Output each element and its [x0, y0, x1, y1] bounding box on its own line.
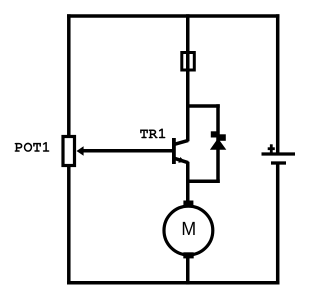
wire emitter lead to motor	[186, 162, 190, 204]
motor M1 bottom terminal	[183, 252, 193, 258]
motor M1 top terminal	[183, 201, 193, 207]
wire right rail lower	[276, 163, 280, 285]
wire left rail upper	[67, 14, 71, 137]
battery BT1 negative short plate	[271, 161, 286, 164]
wire diode loop top	[186, 104, 220, 108]
potentiometer POT1 wiper arrowhead	[77, 146, 84, 155]
transistor TR1 emitter diagonal	[174, 158, 188, 163]
fuse body	[182, 53, 195, 71]
diode D1 cathode bar right half	[220, 134, 226, 141]
diode D1 triangle	[210, 138, 226, 150]
transistor TR1 collector diagonal	[174, 140, 188, 144]
potentiometer POT1 wiper wire	[82, 149, 172, 153]
potentiometer POT1 body	[63, 137, 75, 166]
transistor TR1 base bar	[172, 138, 176, 164]
wire left rail lower	[67, 165, 71, 285]
wire top rail	[67, 14, 279, 18]
wire diode branch vertical	[216, 104, 220, 183]
wire motor to bottom rail	[186, 257, 190, 285]
diode D1 cathode bar left half	[211, 131, 217, 137]
wire right rail upper	[276, 14, 280, 153]
battery BT1 positive long plate	[262, 152, 296, 155]
wire diode loop bottom	[186, 179, 220, 183]
wire bottom rail	[67, 281, 279, 285]
motor M1 body circle	[164, 206, 213, 255]
transistor TR1 emitter arrowhead	[178, 157, 185, 163]
battery BT1 plus sign	[268, 144, 275, 153]
label TR1	[140, 129, 165, 139]
wire middle vertical (fuse/collector branch)	[186, 14, 190, 141]
motor M1 letter M	[183, 222, 195, 235]
label POT1	[15, 142, 50, 152]
